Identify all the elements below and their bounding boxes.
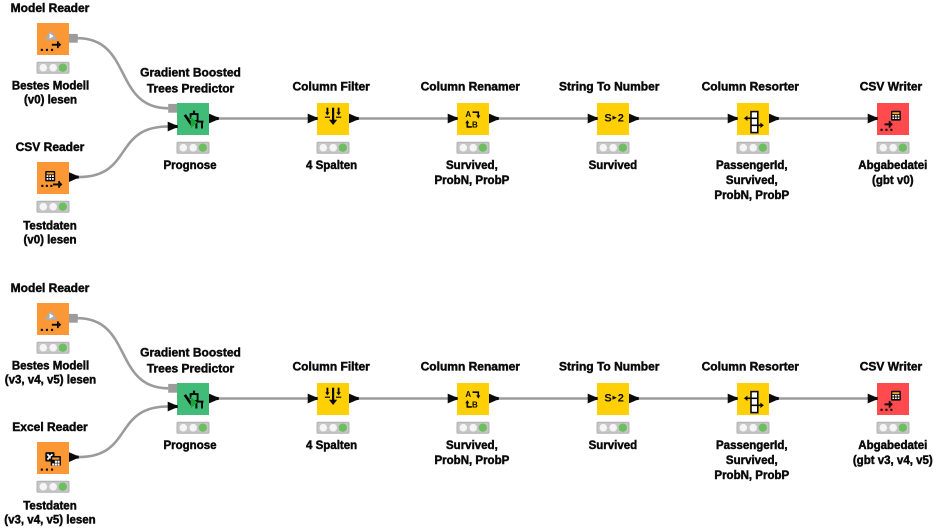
svg-text:Prognose: Prognose <box>163 160 216 172</box>
input data port of Column Filter (row 1) <box>308 114 318 124</box>
input data port of String To Number (row 1) <box>588 114 598 124</box>
traffic light String To Number (row 2) <box>597 422 629 433</box>
svg-text:Trees Predictor: Trees Predictor <box>147 362 235 376</box>
svg-text:4 Spalten: 4 Spalten <box>306 160 357 172</box>
label GBT Predictor (row 1) <box>163 160 216 172</box>
input data port of Column Renamer (row 2) <box>448 394 458 404</box>
traffic light Column Filter (row 1) <box>317 142 349 153</box>
traffic light Column Filter (row 2) <box>317 422 349 433</box>
svg-text:Excel Reader: Excel Reader <box>12 420 88 434</box>
traffic light Model Reader (row 2) <box>37 342 69 353</box>
title String To Number (row 2) <box>559 360 660 374</box>
svg-text:S: S <box>604 112 611 124</box>
input model port of GBT Predictor (row 2) <box>168 384 177 393</box>
node Column Resorter (row 2) <box>737 383 769 415</box>
input data port of CSV Writer (row 2) <box>868 394 878 404</box>
svg-text:Bestes Modell: Bestes Modell <box>12 80 89 92</box>
traffic light Column Resorter (row 1) <box>737 142 769 153</box>
svg-text:Survived,: Survived, <box>446 160 498 172</box>
node Column Resorter (row 1) <box>737 103 769 135</box>
label String To Number (row 1) <box>589 160 638 172</box>
traffic light Excel Reader (row 2) <box>37 481 69 492</box>
input data port of Column Resorter (row 2) <box>728 394 738 404</box>
svg-text:Gradient Boosted: Gradient Boosted <box>140 346 241 360</box>
traffic light String To Number (row 1) <box>597 142 629 153</box>
node Column Renamer (row 2) <box>457 383 489 415</box>
wire Excel Reader to GBT Predictor data port (row 2) <box>78 407 168 458</box>
svg-text:ProbN, ProbP: ProbN, ProbP <box>714 470 789 482</box>
output data port of Column Filter (row 1) <box>349 114 359 124</box>
label GBT Predictor (row 2) <box>163 440 216 452</box>
label CSV Writer (row 2) <box>853 440 933 467</box>
output data port of Column Renamer (row 2) <box>489 394 499 404</box>
svg-text:Model Reader: Model Reader <box>11 281 90 295</box>
title Model Reader (row 2) <box>11 281 90 295</box>
svg-text:A: A <box>465 390 471 399</box>
svg-text:PassengerId,: PassengerId, <box>716 160 788 172</box>
input data port of Column Renamer (row 1) <box>448 114 458 124</box>
node Model Reader (row 2) <box>37 303 69 335</box>
wire String To Number to Column Resorter (row 1) <box>638 117 728 119</box>
output data port of GBT Predictor (row 1) <box>209 114 219 124</box>
traffic light Column Renamer (row 2) <box>457 422 489 433</box>
title Column Filter (row 1) <box>293 80 371 94</box>
svg-text:(v0) lesen: (v0) lesen <box>24 95 77 107</box>
node String To Number (row 2) <box>597 383 629 415</box>
label Column Renamer (row 2) <box>435 440 510 467</box>
output data port of Column Resorter (row 1) <box>769 114 779 124</box>
svg-text:S: S <box>604 392 611 404</box>
input model port of GBT Predictor (row 1) <box>168 104 177 113</box>
svg-text:Testdaten: Testdaten <box>23 501 76 513</box>
node String To Number (row 1) <box>597 103 629 135</box>
node CSV Writer (row 2) <box>877 383 909 415</box>
svg-text:ProbN, ProbP: ProbN, ProbP <box>435 175 510 187</box>
output data port of CSV Reader (row 1) <box>69 172 79 182</box>
label Column Resorter (row 2) <box>714 440 789 482</box>
label Excel Reader (row 2) <box>4 501 95 527</box>
title Column Resorter (row 1) <box>702 80 800 94</box>
node Model Reader (row 1) <box>37 23 69 55</box>
wire Model Reader to GBT Predictor model port (row 2) <box>78 318 169 388</box>
wire Column Filter to Column Renamer (row 2) <box>358 397 448 399</box>
svg-text:Abgabedatei: Abgabedatei <box>858 160 927 172</box>
svg-text:2: 2 <box>618 112 624 124</box>
title Column Renamer (row 2) <box>421 360 521 374</box>
wire Column Filter to Column Renamer (row 1) <box>358 117 448 119</box>
label Model Reader (row 1) <box>12 80 89 106</box>
traffic light CSV Reader (row 1) <box>37 201 69 212</box>
title GBT Predictor (row 2) <box>140 346 241 376</box>
svg-text:PassengerId,: PassengerId, <box>716 440 788 452</box>
label Column Renamer (row 1) <box>435 160 510 187</box>
traffic light Model Reader (row 1) <box>37 62 69 73</box>
svg-text:Survived,: Survived, <box>726 175 778 187</box>
input data port of Column Resorter (row 1) <box>728 114 738 124</box>
svg-text:Prognose: Prognose <box>163 440 216 452</box>
node Column Renamer (row 1) <box>457 103 489 135</box>
node Column Filter (row 2) <box>317 383 349 415</box>
svg-text:Column Resorter: Column Resorter <box>702 80 800 94</box>
node Column Filter (row 1) <box>317 103 349 135</box>
output model port of Model Reader (row 2) <box>69 314 78 323</box>
svg-text:CSV Reader: CSV Reader <box>16 140 85 154</box>
label Column Resorter (row 1) <box>714 160 789 202</box>
svg-text:A: A <box>465 110 471 119</box>
title Excel Reader (row 2) <box>12 420 88 434</box>
svg-text:ProbN, ProbP: ProbN, ProbP <box>714 190 789 202</box>
svg-text:Gradient Boosted: Gradient Boosted <box>140 66 241 80</box>
svg-text:(gbt v0): (gbt v0) <box>872 175 914 187</box>
label Column Filter (row 2) <box>306 440 357 452</box>
input data port of GBT Predictor (row 1) <box>168 122 178 132</box>
title Model Reader (row 1) <box>11 1 90 15</box>
svg-text:CSV Writer: CSV Writer <box>860 360 923 374</box>
title CSV Writer (row 2) <box>860 360 923 374</box>
node Excel Reader (row 2) <box>37 442 69 474</box>
svg-text:Bestes Modell: Bestes Modell <box>12 360 89 372</box>
svg-text:(v3, v4, v5) lesen: (v3, v4, v5) lesen <box>4 515 95 527</box>
svg-text:CSV Writer: CSV Writer <box>860 80 923 94</box>
label String To Number (row 2) <box>589 440 638 452</box>
wire String To Number to Column Resorter (row 2) <box>638 397 728 399</box>
output data port of Column Resorter (row 2) <box>769 394 779 404</box>
output model port of Model Reader (row 1) <box>69 34 78 43</box>
input data port of CSV Writer (row 1) <box>868 114 878 124</box>
svg-text:String To Number: String To Number <box>559 360 660 374</box>
svg-text:Model Reader: Model Reader <box>11 1 90 15</box>
svg-text:Survived,: Survived, <box>446 440 498 452</box>
label CSV Writer (row 1) <box>858 160 927 187</box>
title Column Filter (row 2) <box>293 360 371 374</box>
output data port of Excel Reader (row 2) <box>69 452 79 462</box>
output data port of Column Renamer (row 1) <box>489 114 499 124</box>
input data port of Column Filter (row 2) <box>308 394 318 404</box>
svg-text:Abgabedatei: Abgabedatei <box>858 440 927 452</box>
title Column Renamer (row 1) <box>421 80 521 94</box>
wire Model Reader to GBT Predictor model port (row 1) <box>78 38 169 108</box>
svg-text:Survived: Survived <box>589 440 638 452</box>
traffic light GBT Predictor (row 2) <box>177 422 209 433</box>
svg-text:Testdaten: Testdaten <box>23 221 76 233</box>
wire Column Resorter to CSV Writer (row 2) <box>778 397 868 399</box>
svg-text:Survived,: Survived, <box>726 455 778 467</box>
node Gradient Boosted Trees Predictor (row 1) <box>177 103 209 135</box>
title String To Number (row 1) <box>559 80 660 94</box>
svg-text:ProbN, ProbP: ProbN, ProbP <box>435 455 510 467</box>
svg-text:Column Renamer: Column Renamer <box>421 80 521 94</box>
traffic light CSV Writer (row 1) <box>877 142 909 153</box>
wire GBT Predictor to Column Filter (row 1) <box>218 117 308 119</box>
svg-text:2: 2 <box>618 392 624 404</box>
traffic light CSV Writer (row 2) <box>877 422 909 433</box>
wire Column Resorter to CSV Writer (row 1) <box>778 117 868 119</box>
label CSV Reader (row 1) <box>23 221 76 247</box>
svg-text:Trees Predictor: Trees Predictor <box>147 82 235 96</box>
traffic light GBT Predictor (row 1) <box>177 142 209 153</box>
wire GBT Predictor to Column Filter (row 2) <box>218 397 308 399</box>
wire Column Renamer to String To Number (row 1) <box>498 117 588 119</box>
node CSV Reader (row 1) <box>37 162 69 194</box>
svg-text:B: B <box>472 121 478 130</box>
input data port of String To Number (row 2) <box>588 394 598 404</box>
svg-text:Column Renamer: Column Renamer <box>421 360 521 374</box>
traffic light Column Renamer (row 1) <box>457 142 489 153</box>
traffic light Column Resorter (row 2) <box>737 422 769 433</box>
svg-text:4 Spalten: 4 Spalten <box>306 440 357 452</box>
wire CSV Reader to GBT Predictor data port (row 1) <box>78 127 168 178</box>
label Column Filter (row 1) <box>306 160 357 172</box>
svg-text:B: B <box>472 401 478 410</box>
output data port of Column Filter (row 2) <box>349 394 359 404</box>
title Column Resorter (row 2) <box>702 360 800 374</box>
title CSV Reader (row 1) <box>16 140 85 154</box>
svg-text:String To Number: String To Number <box>559 80 660 94</box>
title CSV Writer (row 1) <box>860 80 923 94</box>
svg-text:(gbt v3, v4, v5): (gbt v3, v4, v5) <box>853 455 933 467</box>
output data port of GBT Predictor (row 2) <box>209 394 219 404</box>
svg-text:(v3, v4, v5) lesen: (v3, v4, v5) lesen <box>5 375 96 387</box>
wire Column Renamer to String To Number (row 2) <box>498 397 588 399</box>
node CSV Writer (row 1) <box>877 103 909 135</box>
node Gradient Boosted Trees Predictor (row 2) <box>177 383 209 415</box>
svg-text:Column Resorter: Column Resorter <box>702 360 800 374</box>
output data port of String To Number (row 2) <box>629 394 639 404</box>
output data port of String To Number (row 1) <box>629 114 639 124</box>
label Model Reader (row 2) <box>5 360 96 386</box>
svg-text:(v0) lesen: (v0) lesen <box>23 235 76 247</box>
svg-text:Column Filter: Column Filter <box>293 80 371 94</box>
svg-text:Column Filter: Column Filter <box>293 360 371 374</box>
svg-text:Survived: Survived <box>589 160 638 172</box>
title GBT Predictor (row 1) <box>140 66 241 96</box>
input data port of GBT Predictor (row 2) <box>168 402 178 412</box>
